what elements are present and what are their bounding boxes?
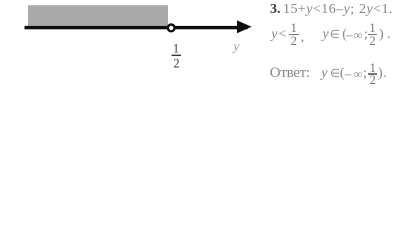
axis arrowhead: [237, 20, 252, 33]
line 1: problem statement: [270, 3, 281, 17]
fraction 1/2: [368, 24, 377, 45]
open circle at 1/2: [168, 25, 175, 32]
fraction 1/2: [368, 64, 377, 85]
line 3: answer: [270, 66, 310, 81]
tick label fraction 1/2 under circle: [172, 41, 182, 70]
shaded solution region (gray bar): [28, 5, 168, 26]
line 2: solution inequality: [271, 28, 277, 42]
number line axis: [25, 26, 248, 29]
fraction 1/2: [289, 24, 300, 45]
number line diagram: [0, 0, 410, 103]
